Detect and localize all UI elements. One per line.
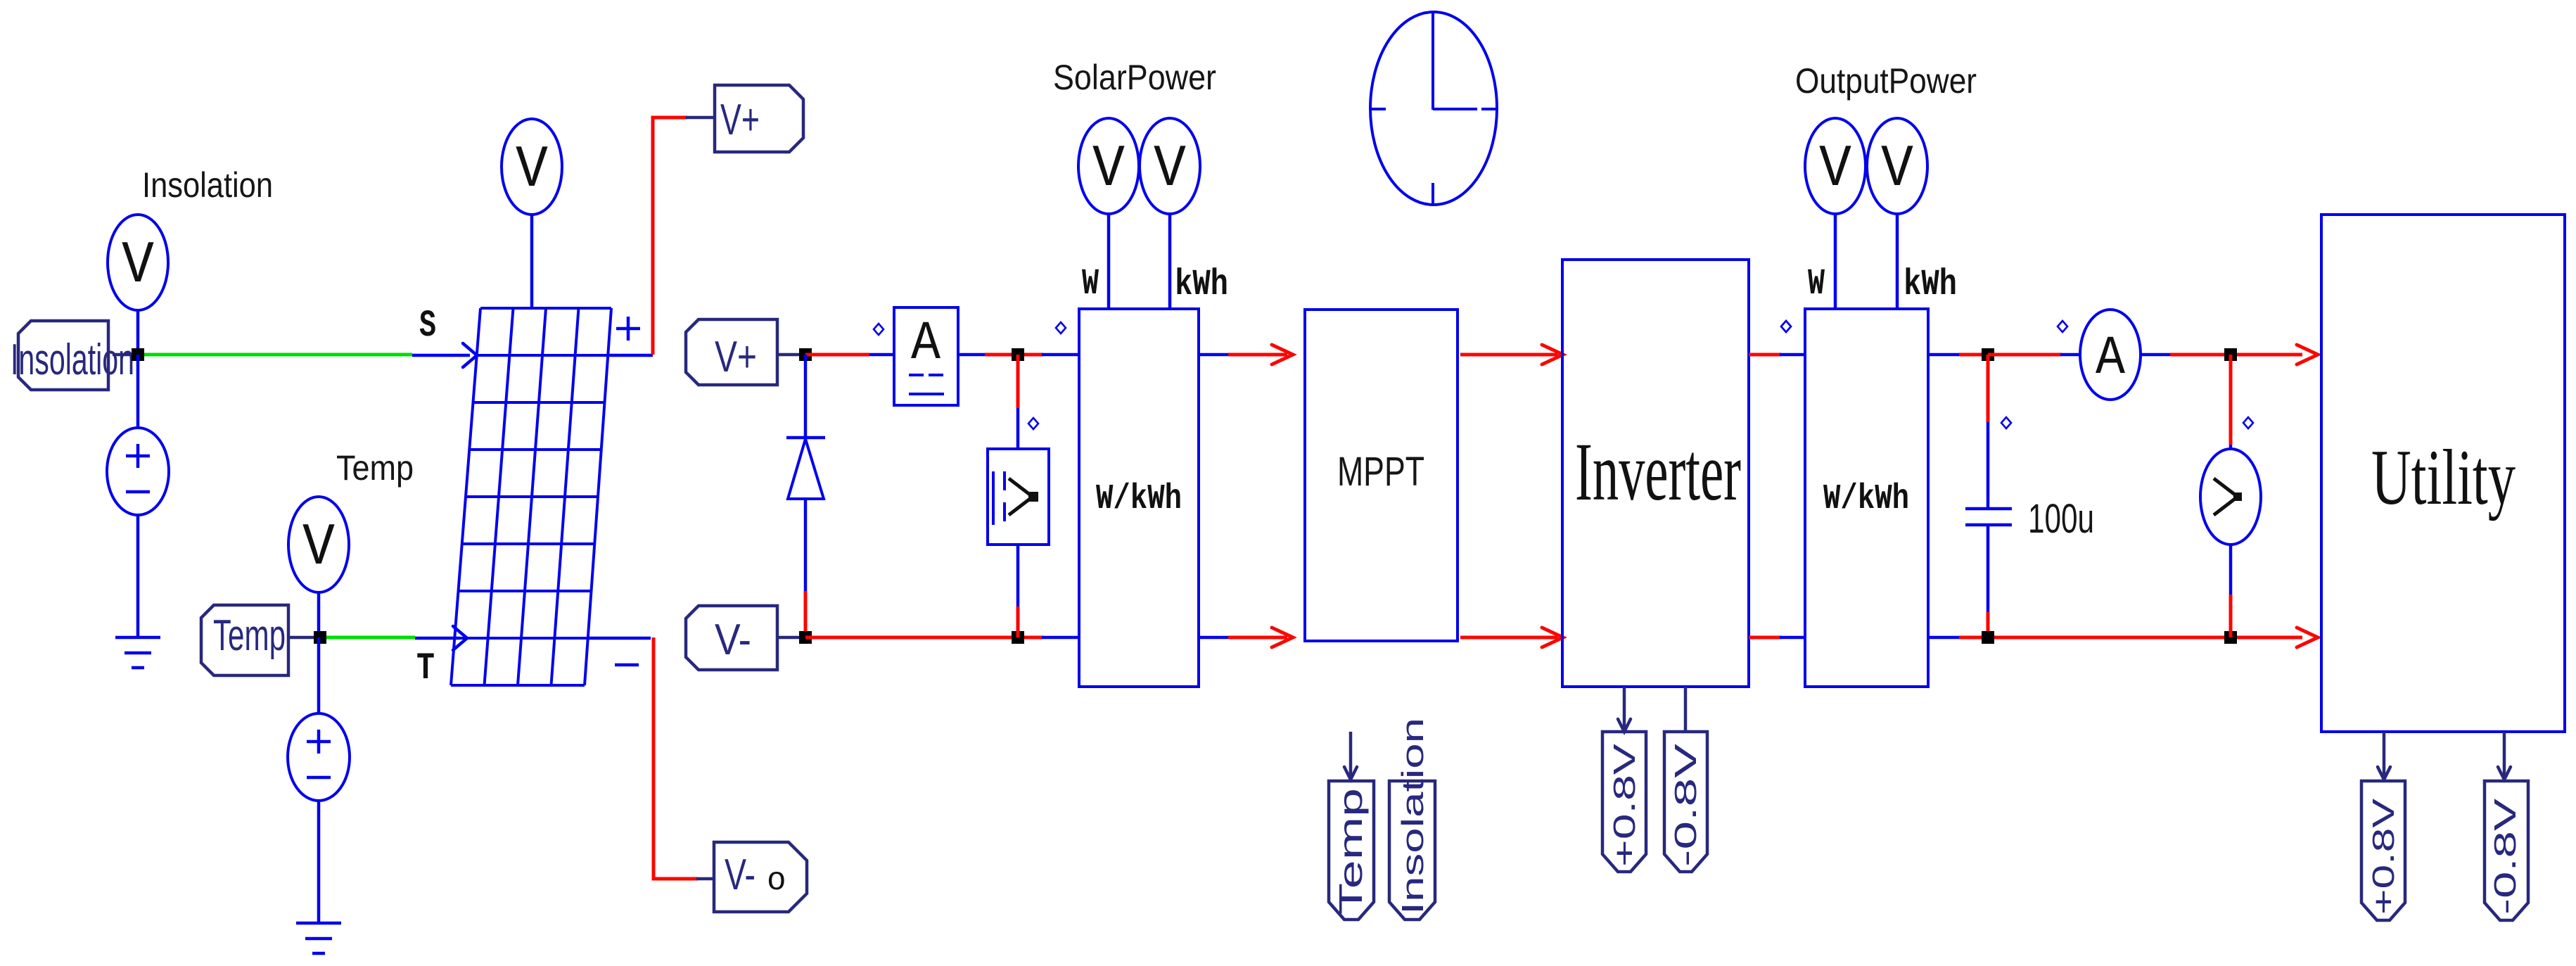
wire voltmeter to node (136, 309, 140, 355)
svg-text:Temp: Temp (1332, 788, 1369, 915)
svg-text:W: W (1082, 263, 1099, 305)
svg-text:+0.8V: +0.8V (1607, 743, 1642, 867)
svg-text:V+: V+ (720, 96, 760, 144)
wire red to cap node (1959, 353, 1988, 357)
probe diamond (OutputPower in) (1781, 321, 1791, 332)
svg-text:W/kWh: W/kWh (1823, 479, 1909, 519)
wire pin of V+ top tag (686, 116, 715, 120)
ammeter A2 (circle) (2080, 310, 2141, 400)
svg-text:V-: V- (715, 616, 751, 664)
tag V- (panel -) (714, 842, 807, 912)
voltmeter W (SolarPower) (1078, 118, 1139, 214)
voltage sensor VS1 branch (1016, 355, 1020, 408)
wire block right bottom pin (1199, 636, 1230, 640)
svg-text:W/kWh: W/kWh (1096, 479, 1182, 519)
svg-text:-0.8V: -0.8V (1669, 743, 1703, 867)
svg-text:Temp: Temp (336, 448, 414, 488)
wire red bottom bus to W/kWh (805, 636, 1043, 640)
wire red arrow MPPT to inverter bottom (1460, 636, 1558, 640)
wire blue into panel T pin (415, 637, 460, 640)
ground (Insolation) (115, 636, 160, 640)
tag V+ (bus feed) (686, 319, 777, 385)
wire red to ammeter circle (1988, 353, 2062, 357)
arrow into T pin (453, 626, 467, 650)
svg-text:V-: V- (725, 851, 755, 899)
solar panel PV1 (skewed grid) (451, 308, 611, 685)
voltmeter W (OutputPower) (1805, 118, 1866, 214)
wire ammeter left pin (869, 353, 895, 357)
wire ammeter right (2141, 353, 2172, 357)
inverter gate stub - (1684, 687, 1688, 733)
svg-text:S: S (419, 305, 436, 348)
tag -0.8V (utility) (2485, 781, 2528, 920)
tag Temp (vertical) (1329, 781, 1374, 920)
tag +0.8V (inverter) (1602, 732, 1646, 872)
node utility top (2224, 348, 2237, 361)
wire tag pin (777, 353, 807, 357)
tag +0.8V (utility) (2361, 781, 2405, 920)
wire block right bottom pin (1928, 636, 1960, 640)
svg-text:-0.8V: -0.8V (2488, 798, 2523, 915)
voltmeter (Temp probe) (288, 497, 349, 592)
tag V- (bus return) (686, 606, 777, 670)
svg-text:V: V (1092, 136, 1125, 203)
tag Temp (201, 605, 288, 675)
node: Temp junction (314, 631, 326, 644)
wire source to ground (317, 801, 321, 923)
inverter gate stub + (1623, 687, 1626, 733)
panel + terminal mark (616, 327, 640, 331)
svg-text:A: A (2096, 328, 2125, 390)
svg-text:OutputPower: OutputPower (1795, 61, 1977, 101)
block Utility (2321, 215, 2565, 732)
svg-text:+0.8V: +0.8V (2366, 798, 2401, 915)
voltage sensor VS2 (circle) (2200, 449, 2261, 545)
wire red arrow MPPT to inverter top (1460, 353, 1558, 357)
node: Insolation junction (132, 348, 144, 361)
wire voltmeter to node (317, 591, 321, 637)
tag Insolation (vertical) (1389, 781, 1435, 920)
node after ammeter (1012, 348, 1024, 361)
wire meter kWh down (1168, 212, 1172, 310)
block W/kWh (SolarPower) (1079, 309, 1199, 687)
arrow into S pin (463, 343, 477, 367)
wire red up to V+ tag (653, 117, 687, 355)
svg-text:V: V (302, 515, 335, 582)
probe diamond (output) (1781, 321, 1791, 332)
ground (Temp) (296, 922, 341, 925)
wire red to node (985, 353, 1043, 357)
svg-text:V: V (1819, 136, 1851, 203)
svg-text:Temp: Temp (213, 611, 286, 660)
wire block right top pin (1199, 353, 1230, 357)
voltmeter above panel (502, 119, 562, 215)
block Inverter (1562, 260, 1749, 687)
wire ammeter right pin (958, 353, 985, 357)
wire W/kWh left pin (1042, 353, 1080, 357)
wire voltmeter to panel top (530, 213, 534, 310)
node V+ junction (799, 348, 812, 361)
wire tag to node (113, 353, 132, 357)
svg-text:Insolation: Insolation (11, 336, 134, 384)
probe diamond (ammeter) (2058, 321, 2067, 332)
node below voltage sensor (1012, 631, 1024, 644)
arrow into Utility bottom (2297, 628, 2318, 647)
wire red arrow to MPPT top (1228, 353, 1287, 357)
node capacitor top (1982, 348, 1994, 361)
wire node to DC source (136, 355, 140, 428)
svg-text:T: T (416, 647, 435, 690)
wire block right top pin (1928, 353, 1960, 357)
wire meter kWh down (1896, 212, 1899, 310)
voltmeter (Insolation probe) (108, 215, 168, 310)
wire blue into panel S pin (412, 354, 470, 357)
wire source to ground (136, 515, 140, 637)
node capacitor bottom (1982, 631, 1994, 644)
svg-text:100u: 100u (2028, 496, 2094, 542)
wire W/kWh bottom-left pin (1042, 636, 1080, 640)
svg-text:o: o (767, 863, 786, 899)
wire meter W down (1107, 212, 1111, 310)
svg-text:V: V (516, 137, 548, 204)
wire pin of V- bottom tag (696, 877, 715, 881)
wire red arrow to MPPT bottom (1228, 636, 1287, 640)
dc source (Temp) (288, 713, 350, 801)
block W/kWh (OutputPower) (1805, 309, 1928, 687)
wire green S net (144, 353, 412, 357)
panel - terminal mark (615, 663, 639, 667)
svg-text:V: V (1881, 136, 1913, 203)
voltage sensor VS2 branch (2229, 355, 2233, 445)
svg-text:kWh: kWh (1904, 264, 1957, 305)
svg-text:SolarPower: SolarPower (1053, 58, 1216, 97)
wire tag to node (290, 636, 314, 640)
wire red to ammeter (805, 353, 869, 357)
svg-text:MPPT: MPPT (1337, 449, 1424, 495)
svg-text:W: W (1808, 263, 1825, 305)
arrow into Utility top (2297, 345, 2318, 364)
wire red down to V- tag (653, 637, 698, 879)
capacitor C1 100u (1987, 355, 1990, 422)
probe diamond (ammeter) (874, 324, 884, 335)
clock symbol (1370, 12, 1497, 205)
svg-text:V+: V+ (715, 333, 757, 381)
ammeter A1 (DC) (894, 307, 958, 405)
wire panel - output (587, 637, 651, 640)
svg-text:Inverter: Inverter (1575, 426, 1741, 518)
svg-text:A: A (911, 313, 941, 375)
stub wire Temp tag (1349, 732, 1353, 781)
node v-sensor bottom (2224, 631, 2237, 644)
utility stub - (2503, 732, 2506, 781)
svg-text:V: V (122, 233, 154, 300)
wire green T net (326, 636, 415, 640)
block MPPT (1305, 310, 1458, 641)
wire inverter right bottom pin (1749, 636, 1781, 640)
wire tag pin (777, 636, 807, 640)
wire meter W down (1834, 212, 1837, 310)
probe diamond (W/kWh in) (1056, 322, 1066, 333)
wire inverter right top pin (1749, 353, 1781, 357)
utility stub + (2383, 732, 2386, 781)
svg-text:Insolation: Insolation (142, 165, 273, 205)
tag -0.8V (inverter) (1664, 732, 1707, 872)
voltmeter kWh (SolarPower) (1140, 118, 1200, 214)
svg-text:V: V (1154, 136, 1186, 203)
tag V+ (panel +) (715, 85, 803, 152)
wire red diode to bottom bus (804, 591, 808, 637)
voltmeter kWh (OutputPower) (1867, 118, 1927, 214)
svg-text:kWh: kWh (1175, 264, 1228, 305)
diode D1 (804, 355, 808, 438)
wire node to DC source (317, 637, 321, 713)
node V- junction (799, 631, 812, 644)
svg-text:Insolation: Insolation (1396, 718, 1430, 915)
wire red bottom bus to utility (1959, 636, 2302, 640)
svg-text:Utility: Utility (2371, 434, 2516, 521)
dc source (Insolation) (107, 428, 169, 515)
wire panel + output (606, 354, 653, 357)
tag Insolation (18, 321, 108, 390)
